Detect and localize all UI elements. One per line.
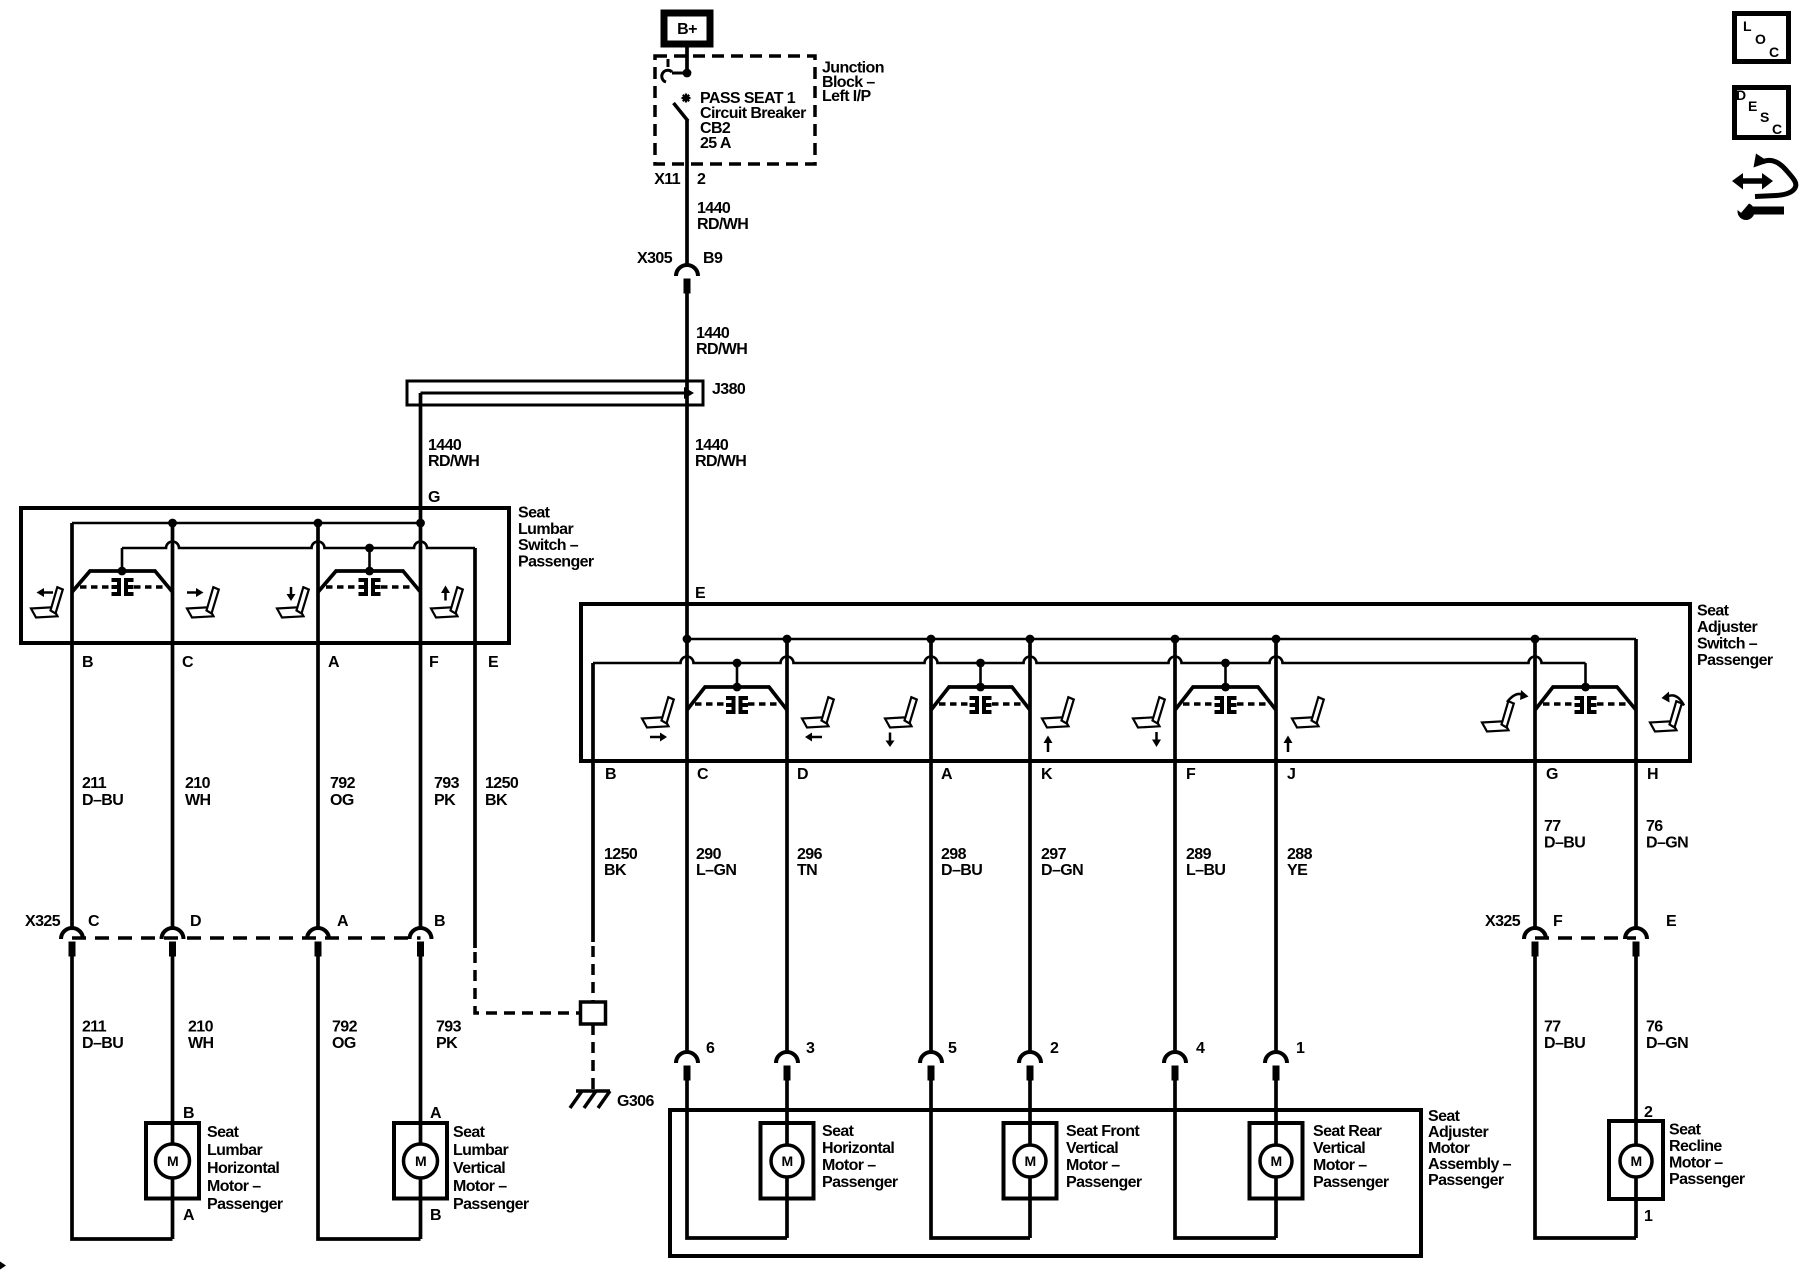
svg-text:Seat: Seat <box>1428 1108 1461 1125</box>
svg-text:K: K <box>1041 766 1053 783</box>
svg-text:M: M <box>167 1153 178 1169</box>
svg-text:Switch –: Switch – <box>518 537 579 554</box>
svg-text:1250: 1250 <box>604 846 638 863</box>
svg-text:A: A <box>941 766 953 783</box>
svg-text:1: 1 <box>1296 1040 1305 1057</box>
svg-text:X11: X11 <box>654 171 680 188</box>
svg-text:Motor –: Motor – <box>822 1157 876 1174</box>
svg-text:G: G <box>428 489 440 506</box>
svg-text:1: 1 <box>1644 1208 1653 1225</box>
svg-text:Adjuster: Adjuster <box>1428 1124 1488 1141</box>
svg-text:B: B <box>82 654 93 671</box>
svg-text:Passenger: Passenger <box>207 1196 283 1213</box>
svg-text:C: C <box>1769 44 1779 60</box>
svg-text:793: 793 <box>434 775 460 792</box>
svg-text:Horizontal: Horizontal <box>822 1140 894 1157</box>
svg-text:1440: 1440 <box>696 325 730 342</box>
svg-text:Passenger: Passenger <box>1428 1172 1504 1189</box>
svg-text:S: S <box>1760 109 1769 125</box>
svg-text:PK: PK <box>434 792 456 809</box>
svg-text:Seat: Seat <box>1697 603 1730 620</box>
svg-text:B: B <box>183 1105 194 1122</box>
svg-text:X325: X325 <box>25 913 61 930</box>
svg-text:288: 288 <box>1287 846 1313 863</box>
svg-text:Passenger: Passenger <box>822 1174 898 1191</box>
svg-text:O: O <box>1755 31 1766 47</box>
svg-text:G: G <box>1546 766 1558 783</box>
svg-text:Lumbar: Lumbar <box>453 1142 508 1159</box>
svg-text:Motor –: Motor – <box>207 1178 261 1195</box>
svg-text:J: J <box>1287 766 1295 783</box>
svg-text:C: C <box>697 766 709 783</box>
svg-text:YE: YE <box>1287 862 1308 879</box>
svg-text:Vertical: Vertical <box>453 1160 505 1177</box>
svg-text:Passenger: Passenger <box>518 554 594 571</box>
svg-text:D–GN: D–GN <box>1646 1035 1688 1052</box>
svg-text:Seat: Seat <box>518 505 551 522</box>
svg-text:BK: BK <box>604 862 627 879</box>
svg-text:793: 793 <box>436 1019 462 1036</box>
svg-text:B: B <box>605 766 616 783</box>
svg-text:1440: 1440 <box>697 200 731 217</box>
svg-text:Motor –: Motor – <box>1669 1155 1723 1172</box>
svg-text:B: B <box>430 1207 441 1224</box>
svg-text:Vertical: Vertical <box>1313 1140 1365 1157</box>
svg-text:Seat: Seat <box>1669 1122 1702 1139</box>
svg-text:Seat: Seat <box>453 1124 486 1141</box>
svg-text:M: M <box>1024 1153 1035 1169</box>
svg-text:5: 5 <box>948 1040 957 1057</box>
svg-text:D–BU: D–BU <box>1544 835 1585 852</box>
svg-text:BK: BK <box>485 792 508 809</box>
svg-text:3: 3 <box>806 1040 815 1057</box>
svg-text:792: 792 <box>330 775 356 792</box>
svg-text:1440: 1440 <box>695 437 729 454</box>
svg-text:Seat: Seat <box>207 1124 240 1141</box>
svg-text:RD/WH: RD/WH <box>696 341 747 358</box>
svg-text:1440: 1440 <box>428 437 462 454</box>
svg-text:Passenger: Passenger <box>453 1196 529 1213</box>
svg-text:76: 76 <box>1646 1019 1663 1036</box>
svg-text:B+: B+ <box>677 21 697 38</box>
svg-text:289: 289 <box>1186 846 1212 863</box>
svg-text:E: E <box>1748 98 1757 114</box>
svg-text:211: 211 <box>82 1019 107 1036</box>
svg-text:RD/WH: RD/WH <box>428 453 479 470</box>
svg-text:Assembly –: Assembly – <box>1428 1156 1512 1173</box>
svg-text:6: 6 <box>706 1040 715 1057</box>
svg-text:X305: X305 <box>637 250 673 267</box>
svg-text:D: D <box>190 913 201 930</box>
svg-text:Vertical: Vertical <box>1066 1140 1118 1157</box>
svg-text:Passenger: Passenger <box>1066 1174 1142 1191</box>
svg-text:77: 77 <box>1544 1019 1561 1036</box>
svg-text:E: E <box>695 585 706 602</box>
svg-text:E: E <box>488 654 499 671</box>
svg-text:Passenger: Passenger <box>1669 1171 1745 1188</box>
svg-text:L–GN: L–GN <box>696 862 736 879</box>
svg-text:C: C <box>1772 121 1782 137</box>
svg-text:RD/WH: RD/WH <box>697 216 748 233</box>
svg-text:Passenger: Passenger <box>1697 652 1773 669</box>
svg-text:D–BU: D–BU <box>82 792 123 809</box>
svg-text:Motor –: Motor – <box>453 1178 507 1195</box>
svg-text:1250: 1250 <box>485 775 519 792</box>
svg-text:L–BU: L–BU <box>1186 862 1225 879</box>
svg-text:Lumbar: Lumbar <box>518 521 573 538</box>
svg-text:2: 2 <box>697 171 706 188</box>
svg-text:B: B <box>434 913 445 930</box>
svg-text:Seat Front: Seat Front <box>1066 1123 1140 1140</box>
svg-text:298: 298 <box>941 846 967 863</box>
svg-text:A: A <box>183 1207 195 1224</box>
svg-text:D: D <box>1736 87 1746 103</box>
svg-text:J380: J380 <box>712 381 746 398</box>
svg-text:A: A <box>430 1105 442 1122</box>
svg-text:F: F <box>429 654 439 671</box>
svg-text:A: A <box>337 913 349 930</box>
svg-text:C: C <box>88 913 100 930</box>
svg-text:2: 2 <box>1050 1040 1059 1057</box>
svg-text:D–BU: D–BU <box>941 862 982 879</box>
svg-text:Horizontal: Horizontal <box>207 1160 279 1177</box>
svg-text:WH: WH <box>188 1035 214 1052</box>
svg-text:Seat Rear: Seat Rear <box>1313 1123 1382 1140</box>
svg-text:G306: G306 <box>617 1093 654 1110</box>
svg-text:M: M <box>1630 1153 1641 1169</box>
svg-text:297: 297 <box>1041 846 1067 863</box>
svg-text:D–GN: D–GN <box>1646 835 1688 852</box>
svg-text:B9: B9 <box>703 250 723 267</box>
svg-text:M: M <box>415 1153 426 1169</box>
svg-text:Adjuster: Adjuster <box>1697 619 1757 636</box>
svg-text:WH: WH <box>185 792 211 809</box>
svg-text:2: 2 <box>1644 1104 1653 1121</box>
svg-text:D–BU: D–BU <box>1544 1035 1585 1052</box>
svg-text:D–BU: D–BU <box>82 1035 123 1052</box>
svg-text:792: 792 <box>332 1019 358 1036</box>
svg-text:Lumbar: Lumbar <box>207 1142 262 1159</box>
svg-text:PK: PK <box>436 1035 458 1052</box>
svg-text:210: 210 <box>185 775 211 792</box>
svg-text:296: 296 <box>797 846 823 863</box>
svg-text:RD/WH: RD/WH <box>695 453 746 470</box>
svg-text:Seat: Seat <box>822 1123 855 1140</box>
svg-text:H: H <box>1647 766 1658 783</box>
svg-text:Motor –: Motor – <box>1066 1157 1120 1174</box>
svg-text:X325: X325 <box>1485 913 1521 930</box>
svg-text:25 A: 25 A <box>700 135 732 152</box>
svg-text:OG: OG <box>330 792 354 809</box>
svg-text:290: 290 <box>696 846 722 863</box>
svg-text:A: A <box>328 654 340 671</box>
svg-text:Left I/P: Left I/P <box>822 88 871 105</box>
svg-text:Switch –: Switch – <box>1697 636 1758 653</box>
svg-text:M: M <box>1270 1153 1281 1169</box>
svg-text:TN: TN <box>797 862 817 879</box>
svg-text:Passenger: Passenger <box>1313 1174 1389 1191</box>
svg-text:76: 76 <box>1646 818 1663 835</box>
svg-text:M: M <box>781 1153 792 1169</box>
svg-text:211: 211 <box>82 775 107 792</box>
svg-text:E: E <box>1666 913 1677 930</box>
svg-text:210: 210 <box>188 1019 214 1036</box>
svg-text:Motor –: Motor – <box>1313 1157 1367 1174</box>
svg-text:F: F <box>1186 766 1196 783</box>
svg-text:D: D <box>797 766 808 783</box>
svg-text:L: L <box>1743 18 1752 34</box>
svg-text:77: 77 <box>1544 818 1561 835</box>
svg-text:D–GN: D–GN <box>1041 862 1083 879</box>
svg-text:F: F <box>1553 913 1563 930</box>
svg-text:Motor: Motor <box>1428 1140 1470 1157</box>
svg-text:Recline: Recline <box>1669 1138 1722 1155</box>
svg-text:C: C <box>182 654 194 671</box>
svg-text:OG: OG <box>332 1035 356 1052</box>
svg-text:4: 4 <box>1196 1040 1205 1057</box>
